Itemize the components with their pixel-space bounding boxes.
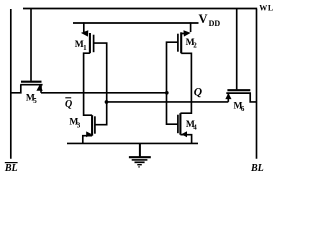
svg-text:Q: Q (194, 87, 202, 99)
svg-text:DD: DD (209, 19, 221, 28)
wire M1 source lead from VDD (83, 22, 85, 32)
wire M5 gate lead from WL (30, 9, 32, 81)
wire BL-bar bit line (left vertical) (10, 9, 12, 159)
ground bar 5 tiny (138, 166, 140, 168)
transistor M4 channel bar (179, 113, 181, 135)
junction dot node Q at L2 (105, 100, 109, 104)
svg-text:BL: BL (250, 163, 264, 174)
wire M6 gate lead from WL (236, 9, 238, 90)
wire M1 gate to cross-couple line L2 to M3 gate (94, 43, 107, 125)
arrow of M3 (NMOS right arrow) (86, 131, 92, 137)
transistor M1 channel bar (89, 33, 91, 53)
wire M1 drain + node Qbar drop L1 + M3 drain leg (84, 53, 93, 115)
svg-text:6: 6 (241, 105, 245, 113)
junction dot node Qbar at L4 (165, 91, 169, 95)
transistor M2 gate bar (177, 34, 179, 52)
svg-text:V: V (199, 12, 208, 26)
transistor M1 gate bar (93, 35, 95, 53)
wire ground rail (bottom horizontal) (67, 142, 198, 144)
transistor M5 gate bar (21, 81, 42, 83)
wire M2 drain + node Q drop L3 + M4 drain leg (180, 53, 191, 113)
arrow of M2 (PMOS right arrow) (184, 30, 191, 36)
wire M3 source leg to ground rail (83, 136, 92, 144)
svg-text:BL: BL (4, 163, 18, 174)
wire M6 right leg to BL (250, 93, 256, 102)
transistor M3 channel bar (91, 115, 93, 136)
svg-text:5: 5 (33, 97, 37, 105)
svg-text:3: 3 (77, 121, 81, 129)
ground bar 1 (129, 156, 151, 158)
svg-text:1: 1 (83, 44, 87, 52)
arrow of M6 (NMOS up arrow) (225, 93, 231, 99)
wire M2 source lead from VDD (190, 22, 192, 32)
wire M4 source leg to ground rail (180, 135, 191, 144)
ground stem (139, 143, 141, 156)
transistor M3 gate bar (94, 116, 96, 133)
transistor M6 channel bar (226, 92, 251, 94)
arrow of M1 (PMOS left arrow) (81, 30, 88, 36)
wire M2 gate to cross-couple line L4 to M4 gate (167, 42, 178, 124)
ground bar 3 (135, 161, 145, 163)
wire M5 left leg to BL-bar (11, 85, 21, 93)
overline of BLbar label (5, 162, 18, 164)
wire BL bit line (right vertical) (256, 9, 258, 159)
svg-text:WL: WL (259, 4, 274, 13)
ground bar 2 (132, 159, 148, 161)
wire M5 right leg (40, 85, 42, 93)
overline of Qbar label (65, 97, 71, 99)
arrow of M4 (NMOS left arrow) (181, 131, 187, 137)
wire VDD rail (73, 22, 199, 24)
transistor M6 gate bar (227, 89, 250, 91)
svg-text:Q: Q (65, 99, 72, 110)
wire node Qbar row H1 (41, 92, 167, 94)
ground bar 4 (137, 164, 142, 166)
svg-text:4: 4 (193, 124, 197, 132)
transistor M5 channel bar (20, 84, 42, 86)
wire M6 left leg (227, 93, 229, 102)
wire WL word line (top horizontal) (23, 8, 257, 10)
wire M2 source leg stub (181, 33, 185, 35)
transistor M4 gate bar (177, 115, 179, 134)
wire node Q row H2 (107, 101, 229, 103)
arrow of M5 (NMOS up arrow) (36, 85, 42, 91)
svg-text:2: 2 (193, 42, 197, 50)
transistor M2 channel bar (180, 32, 182, 53)
